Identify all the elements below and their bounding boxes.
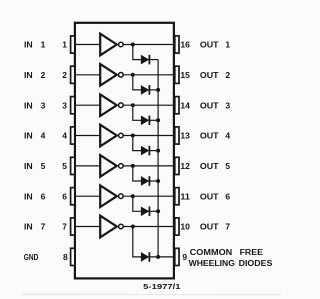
junction dot: D5 cathode on common bus xyxy=(156,179,160,183)
svg-text:COMMON: COMMON xyxy=(190,247,233,257)
wire: OUT 5 node down to diode D5 anode xyxy=(133,166,141,181)
common freewheeling-diode bus (vertical) xyxy=(157,60,159,257)
junction dot on OUT 6 wire xyxy=(131,194,135,198)
svg-text:7: 7 xyxy=(225,222,230,232)
diode D5 cathode bar xyxy=(148,176,150,186)
svg-text:OUT: OUT xyxy=(200,222,220,232)
pin 11 stub xyxy=(175,188,179,205)
inverter U7 (open-collector buffer) xyxy=(100,216,117,238)
scan artifact: faint line at bottom xyxy=(22,293,281,295)
diode D7 cathode bar xyxy=(148,252,150,262)
inverter U1 (open-collector buffer) xyxy=(100,34,117,56)
junction dot: D6 cathode on common bus xyxy=(156,209,160,213)
svg-text:7: 7 xyxy=(41,222,46,232)
svg-text:5: 5 xyxy=(225,161,230,171)
inverter U6 (open-collector buffer) xyxy=(100,185,117,207)
diode D5 xyxy=(141,177,148,186)
wire: D7 cathode through bus junction to pin 9 xyxy=(149,256,175,258)
pin 1 stub xyxy=(71,36,75,53)
junction dot: D2 cathode on common bus xyxy=(156,88,160,92)
svg-text:IN: IN xyxy=(24,131,33,141)
wire: D2 cathode to common bus xyxy=(149,89,158,91)
pin 16 stub xyxy=(175,36,179,53)
svg-text:5: 5 xyxy=(41,161,46,171)
svg-text:GND: GND xyxy=(24,252,39,262)
svg-text:10: 10 xyxy=(180,222,190,232)
svg-text:4: 4 xyxy=(41,131,46,141)
junction dot: D7 cathode on common bus xyxy=(156,255,160,259)
wire: U2 output to pin 15 (OUT 2) xyxy=(123,74,175,76)
wire: OUT 6 node down to diode D6 anode xyxy=(133,196,141,211)
svg-text:IN: IN xyxy=(24,70,33,80)
wire: U5 output to pin 12 (OUT 5) xyxy=(123,165,175,167)
svg-text:13: 13 xyxy=(180,131,190,141)
wire: U6 output to pin 11 (OUT 6) xyxy=(123,195,175,197)
pin 3 stub xyxy=(71,97,75,114)
svg-text:6: 6 xyxy=(62,191,67,201)
wire: OUT 1 node down to diode D1 anode xyxy=(133,45,141,60)
diode D7 xyxy=(141,253,148,262)
wire: D6 cathode to common bus xyxy=(149,210,158,212)
junction dot on OUT 5 wire xyxy=(131,164,135,168)
svg-text:4: 4 xyxy=(225,131,230,141)
svg-text:2: 2 xyxy=(225,70,230,80)
wire: OUT 2 node down to diode D2 anode xyxy=(133,75,141,90)
wire: pin 7 to inverter U7 input xyxy=(75,226,100,228)
wire: OUT 4 node down to diode D4 anode xyxy=(133,136,141,151)
junction dot on OUT 7 wire xyxy=(131,225,135,229)
junction dot on OUT 2 wire xyxy=(131,73,135,77)
junction dot on OUT 3 wire xyxy=(131,103,135,107)
inverter U2 output bubble xyxy=(119,73,124,78)
diode D1 cathode bar xyxy=(148,55,150,65)
diode D4 cathode bar xyxy=(148,146,150,156)
svg-text:5-1977/1: 5-1977/1 xyxy=(143,284,180,291)
svg-text:OUT: OUT xyxy=(200,40,220,50)
diode D4 xyxy=(141,146,148,155)
svg-text:4: 4 xyxy=(62,131,67,141)
svg-text:DIODES: DIODES xyxy=(239,258,273,268)
svg-text:14: 14 xyxy=(180,100,190,110)
wire: pin 2 to inverter U2 input xyxy=(75,74,100,76)
inverter U2 (open-collector buffer) xyxy=(100,64,117,86)
wire: U3 output to pin 14 (OUT 3) xyxy=(123,104,175,106)
svg-text:1: 1 xyxy=(225,40,230,50)
diode D6 xyxy=(141,207,148,216)
svg-text:IN: IN xyxy=(24,100,33,110)
pin 7 stub xyxy=(71,218,75,235)
svg-text:6: 6 xyxy=(41,191,46,201)
svg-text:IN: IN xyxy=(24,40,33,50)
pin 9 stub xyxy=(175,248,179,265)
wire: U7 output to pin 10 (OUT 7) xyxy=(123,226,175,228)
svg-text:3: 3 xyxy=(62,100,67,110)
pin 15 stub xyxy=(175,66,179,83)
wire: U1 output to pin 16 (OUT 1) xyxy=(123,44,175,46)
diode D3 cathode bar xyxy=(148,116,150,126)
wire: D5 cathode to common bus xyxy=(149,180,158,182)
diode D6 cathode bar xyxy=(148,207,150,217)
svg-text:IN: IN xyxy=(24,161,33,171)
svg-text:16: 16 xyxy=(180,40,190,50)
wire: D1 cathode to common bus xyxy=(149,59,158,61)
svg-text:1: 1 xyxy=(41,40,46,50)
svg-text:3: 3 xyxy=(41,100,46,110)
svg-text:WHEELING: WHEELING xyxy=(189,258,236,268)
pin 8 stub xyxy=(71,248,75,265)
svg-text:IN: IN xyxy=(24,191,33,201)
wire: U4 output to pin 13 (OUT 4) xyxy=(123,135,175,137)
svg-text:5: 5 xyxy=(62,161,67,171)
inverter U1 output bubble xyxy=(119,42,124,47)
wire: pin 3 to inverter U3 input xyxy=(75,104,100,106)
svg-text:FREE: FREE xyxy=(240,247,264,257)
pin 10 stub xyxy=(175,218,179,235)
wire: pin 5 to inverter U5 input xyxy=(75,165,100,167)
diode D2 xyxy=(141,86,148,95)
svg-text:6: 6 xyxy=(225,191,230,201)
wire: D3 cathode to common bus xyxy=(149,119,158,121)
pin 12 stub xyxy=(175,157,179,174)
pin 13 stub xyxy=(175,127,179,144)
svg-text:8: 8 xyxy=(63,252,68,262)
svg-text:OUT: OUT xyxy=(200,131,220,141)
pin 14 stub xyxy=(175,97,179,114)
inverter U3 (open-collector buffer) xyxy=(100,94,117,116)
pin 4 stub xyxy=(71,127,75,144)
wire: OUT 3 node down to diode D3 anode xyxy=(133,105,141,120)
svg-text:11: 11 xyxy=(180,191,190,201)
inverter U4 (open-collector buffer) xyxy=(100,125,117,147)
IC body outline xyxy=(75,23,174,279)
junction dot: D4 cathode on common bus xyxy=(156,149,160,153)
inverter U7 output bubble xyxy=(119,224,124,229)
diode D1 xyxy=(141,55,148,64)
svg-text:2: 2 xyxy=(62,70,67,80)
diode D3 xyxy=(141,116,148,125)
junction dot on OUT 1 wire xyxy=(131,43,135,47)
svg-text:2: 2 xyxy=(41,70,46,80)
wire: OUT 7 node down to diode D7 anode xyxy=(133,227,141,257)
svg-text:7: 7 xyxy=(62,222,67,232)
svg-text:OUT: OUT xyxy=(200,70,220,80)
pin 6 stub xyxy=(71,188,75,205)
junction dot on OUT 4 wire xyxy=(131,134,135,138)
inverter U3 output bubble xyxy=(119,103,124,108)
svg-text:IN: IN xyxy=(24,222,33,232)
svg-text:3: 3 xyxy=(225,100,230,110)
wire: pin 4 to inverter U4 input xyxy=(75,135,100,137)
svg-text:1: 1 xyxy=(62,40,67,50)
pin 5 stub xyxy=(71,157,75,174)
inverter U4 output bubble xyxy=(119,133,124,138)
inverter U5 output bubble xyxy=(119,164,124,169)
svg-text:OUT: OUT xyxy=(200,161,220,171)
svg-text:OUT: OUT xyxy=(200,191,220,201)
wire: pin 1 to inverter U1 input xyxy=(75,44,100,46)
diode D2 cathode bar xyxy=(148,85,150,95)
wire: pin 6 to inverter U6 input xyxy=(75,195,100,197)
wire: D4 cathode to common bus xyxy=(149,150,158,152)
svg-text:15: 15 xyxy=(180,70,190,80)
svg-text:OUT: OUT xyxy=(200,100,220,110)
inverter U5 (open-collector buffer) xyxy=(100,155,117,177)
svg-text:9: 9 xyxy=(182,252,187,262)
pin 2 stub xyxy=(71,66,75,83)
svg-text:12: 12 xyxy=(180,161,190,171)
junction dot: D3 cathode on common bus xyxy=(156,118,160,122)
inverter U6 output bubble xyxy=(119,194,124,199)
